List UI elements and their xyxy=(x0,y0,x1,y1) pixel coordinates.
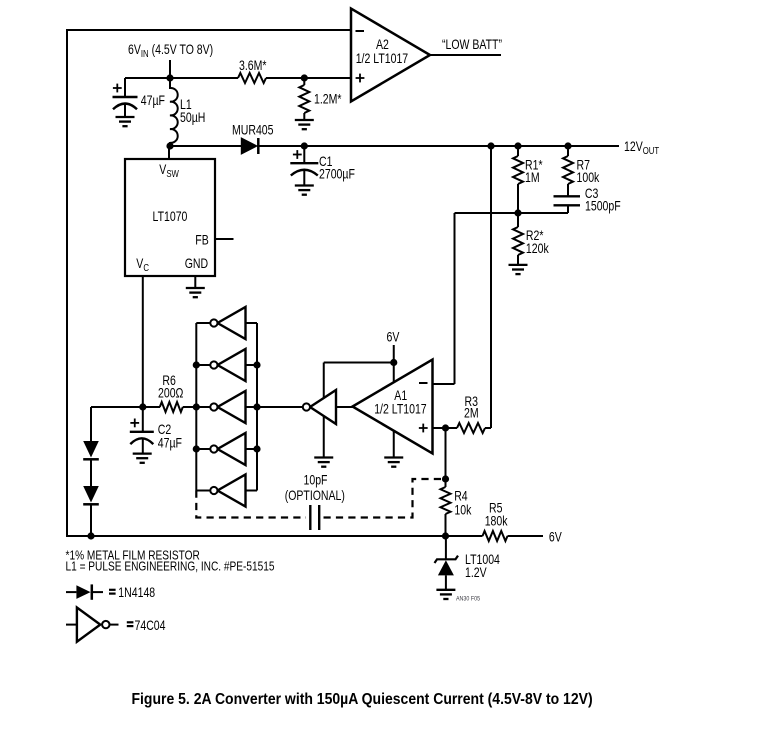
inverter U2-1 74C04 xyxy=(196,322,210,324)
wire left outer vertical xyxy=(66,29,68,537)
node C1 junction xyxy=(301,142,308,149)
resistor 1.2M* xyxy=(303,78,305,85)
legend diode symbol xyxy=(66,591,76,593)
wire bottom reference rail xyxy=(67,535,483,537)
node C2-VC junction xyxy=(139,403,146,410)
svg-text:1500pF: 1500pF xyxy=(585,198,621,214)
wire 6VIN node to A2 + input rail xyxy=(125,77,238,79)
wire LT1004 to ground xyxy=(445,575,447,589)
wire rail to R3 xyxy=(490,146,492,428)
node R1 rail junction xyxy=(514,142,521,149)
svg-text:L1 = PULSE ENGINEERING, INC. #: L1 = PULSE ENGINEERING, INC. #PE-51515 xyxy=(66,559,275,573)
wire VC line down xyxy=(142,276,144,407)
pin + of A2 xyxy=(356,74,365,83)
svg-text:47µF: 47µF xyxy=(158,435,182,451)
svg-text:MUR405: MUR405 xyxy=(232,122,274,138)
node 1.2M top junction xyxy=(301,74,308,81)
svg-text:74C04: 74C04 xyxy=(135,618,166,634)
node A1 + input junction xyxy=(442,424,449,431)
resistor 3.6M* xyxy=(238,73,266,83)
resistor R7 100k xyxy=(567,146,569,156)
svg-text:10k: 10k xyxy=(454,502,472,518)
svg-text:FB: FB xyxy=(195,232,208,248)
pin VSW xyxy=(168,146,170,159)
wire 47uF to ground xyxy=(124,104,126,118)
wire inverter supply through xyxy=(323,363,325,458)
resistor R2* 120k xyxy=(517,213,519,227)
svg-text:47µF: 47µF xyxy=(141,93,165,109)
svg-text:2M: 2M xyxy=(464,405,479,421)
inverter U2F 74C04 driver xyxy=(303,390,336,424)
wire C1 to ground xyxy=(303,170,305,186)
wire C2 to ground xyxy=(142,438,144,453)
wire 6V stub xyxy=(393,345,395,363)
ground A1 xyxy=(384,458,403,467)
ground R2 xyxy=(509,265,528,274)
diode LT1004 1.2V zener xyxy=(435,556,459,563)
node 6VIN junction at L1 top xyxy=(166,74,173,81)
node R4 bottom junction xyxy=(442,532,449,539)
polarity + for C1 xyxy=(293,150,302,159)
pin + of A1 xyxy=(419,424,428,433)
node bank left row4 xyxy=(193,445,200,452)
svg-text:1/2 LT1017: 1/2 LT1017 xyxy=(356,51,409,67)
wire bank to driver bubble xyxy=(257,406,302,408)
node bank left row2 xyxy=(193,361,200,368)
legend equals 1 xyxy=(109,589,116,591)
wire diode string top xyxy=(90,407,92,441)
svg-text:6V: 6V xyxy=(387,329,401,345)
ground 47uF xyxy=(116,117,135,126)
resistor R1* 1M xyxy=(517,146,519,156)
pin - of A2 xyxy=(356,30,365,32)
svg-text:12VOUT: 12VOUT xyxy=(624,139,660,156)
ground 1.2M xyxy=(295,120,314,129)
resistor R5 180k xyxy=(483,531,508,541)
svg-text:6V: 6V xyxy=(549,529,563,545)
wire dashed bank to 10pF xyxy=(196,491,306,518)
ground inverter xyxy=(314,458,333,467)
wire divider junction xyxy=(455,212,569,214)
svg-text:2700µF: 2700µF xyxy=(319,166,355,182)
diode D1 1N4148 xyxy=(83,441,99,458)
wire charge pump row xyxy=(91,406,157,408)
svg-text:200Ω: 200Ω xyxy=(158,385,183,401)
capacitor 47uF input xyxy=(124,78,126,97)
wire VSW rail to MUR405 xyxy=(170,145,242,147)
ground C1 xyxy=(295,186,314,195)
svg-text:1N4148: 1N4148 xyxy=(118,585,155,601)
svg-text:1.2M*: 1.2M* xyxy=(314,91,342,107)
capacitor C2 47uF xyxy=(142,407,144,432)
node bank right row4 xyxy=(253,445,260,452)
svg-text:Figure 5. 2A Converter with 15: Figure 5. 2A Converter with 150µA Quiesc… xyxy=(132,691,593,708)
node 6V junction xyxy=(390,359,397,366)
wire between diodes xyxy=(90,459,92,486)
svg-text:(OPTIONAL): (OPTIONAL) xyxy=(285,488,345,504)
node bank right row2 xyxy=(253,361,260,368)
node dashed junction xyxy=(442,475,449,482)
wire A2 output xyxy=(430,54,501,56)
svg-text:LT1070: LT1070 xyxy=(153,209,188,225)
op-amp A2 1/2 LT1017 xyxy=(351,9,430,102)
diode D2 1N4148 xyxy=(83,486,99,503)
node R7 rail junction xyxy=(564,142,571,149)
capacitor 10pF optional xyxy=(309,505,311,530)
node VSW-L1 junction xyxy=(166,142,173,149)
capacitor C3 1500pF xyxy=(554,195,581,197)
svg-text:6VIN (4.5V TO 8V): 6VIN (4.5V TO 8V) xyxy=(128,42,213,59)
wire bank input bus (right) xyxy=(256,323,258,491)
inverter U2-5 74C04 xyxy=(196,490,210,492)
wire A1 supply through xyxy=(393,363,395,458)
node R3 rail junction xyxy=(487,142,494,149)
svg-text:50µH: 50µH xyxy=(180,110,205,126)
inverter U2-4 74C04 xyxy=(196,448,210,450)
svg-text:180k: 180k xyxy=(485,513,509,529)
svg-text:1/2 LT1017: 1/2 LT1017 xyxy=(374,401,427,417)
svg-text:1M: 1M xyxy=(525,170,540,186)
diode MUR405 xyxy=(241,138,257,154)
svg-text:10pF: 10pF xyxy=(304,472,328,488)
svg-text:GND: GND xyxy=(185,256,209,272)
svg-text:120k: 120k xyxy=(526,241,550,257)
resistor R6 200ohm xyxy=(157,406,160,408)
wire 6VIN label stub xyxy=(169,60,171,78)
resistor R3 2M xyxy=(457,423,485,433)
pin - of A1 xyxy=(419,382,428,384)
ground LT1070 GND xyxy=(186,288,205,297)
polarity + for C2 xyxy=(130,419,139,428)
inverter U2-2 74C04 xyxy=(196,364,210,366)
wire top rail to A2 inverting input xyxy=(67,29,351,31)
wire 12VOUT rail xyxy=(257,145,619,147)
wire diode string bottom xyxy=(90,504,92,536)
wire 6V feed to inverter xyxy=(324,362,394,364)
node diode string to 1.2V rail xyxy=(87,532,94,539)
polarity + for 47uF xyxy=(113,84,122,93)
wire inverter input to A1 xyxy=(336,406,353,408)
svg-text:1.2V: 1.2V xyxy=(465,565,487,581)
legend inverter symbol xyxy=(66,624,77,626)
ground LT1004 xyxy=(436,590,455,599)
inverter U2-3 74C04 xyxy=(196,406,210,408)
pin FB stub xyxy=(215,238,234,240)
node divider junction dot xyxy=(514,209,521,216)
ground C2 xyxy=(133,454,152,463)
node bank left row3 xyxy=(193,403,200,410)
capacitor C1 2700uF xyxy=(303,146,305,163)
inductor L1 50uH xyxy=(169,78,171,89)
wire A1 + node down xyxy=(445,428,447,487)
wire bank output bus (left) xyxy=(195,323,197,491)
pin GND wire xyxy=(194,276,196,288)
legend equals 2 xyxy=(127,621,134,623)
op-amp A1 1/2 LT1017 xyxy=(353,360,433,454)
wire rail to LT1004 xyxy=(445,536,447,559)
resistor R4 10k xyxy=(441,487,451,514)
IC U1 LT1070 block xyxy=(125,159,215,276)
wire junction to A1 inverting input xyxy=(454,213,456,384)
svg-text:3.6M*: 3.6M* xyxy=(239,58,267,74)
svg-text:AN30 F05: AN30 F05 xyxy=(456,596,480,602)
svg-text:100k: 100k xyxy=(577,170,601,186)
node bank right row3 xyxy=(253,403,260,410)
wire A1 + input xyxy=(432,427,458,429)
svg-text:“LOW BATT”: “LOW BATT” xyxy=(442,37,502,53)
wire dashed 10pF to R4 node xyxy=(324,479,446,518)
